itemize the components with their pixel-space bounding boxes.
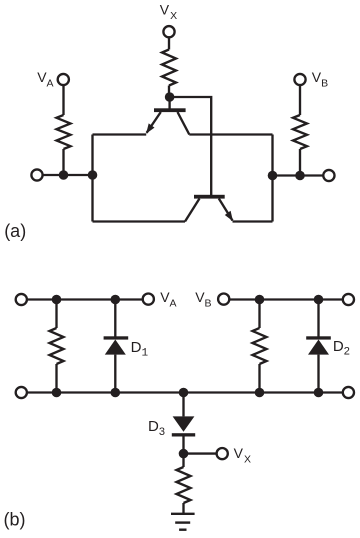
node (179, 449, 189, 459)
transistor Q2 (185, 195, 233, 222)
wire (182, 503, 184, 514)
wire (170, 97, 212, 195)
node (52, 295, 62, 305)
resistor RA (57, 115, 71, 149)
svg-text:VB: VB (312, 69, 328, 90)
wire (62, 149, 64, 175)
wire (168, 86, 170, 98)
wire (273, 174, 324, 176)
svg-text:VA: VA (160, 289, 176, 310)
diode D2 (306, 300, 331, 393)
svg-text:VA: VA (37, 69, 53, 90)
svg-text:VX: VX (234, 445, 251, 466)
node (111, 295, 121, 305)
diode D3 (172, 393, 195, 454)
wire (258, 300, 260, 329)
svg-text:(a): (a) (4, 221, 26, 241)
terminal V_B (294, 74, 305, 85)
resistor R1 (50, 328, 64, 364)
terminal V_B (218, 294, 229, 305)
terminal V_X (163, 26, 174, 37)
terminal top-right (343, 294, 354, 305)
diode D1 (104, 300, 129, 393)
terminal top-left (16, 294, 27, 305)
node (268, 171, 278, 181)
resistor R2 (253, 328, 267, 364)
wire (55, 364, 57, 393)
node (59, 170, 69, 180)
wire (93, 133, 147, 135)
node (179, 388, 189, 398)
wire (299, 149, 301, 176)
wire (43, 174, 93, 176)
wire (bottom rail) (27, 391, 343, 393)
node (111, 388, 121, 398)
terminal bottom-right (343, 387, 354, 398)
wire (189, 133, 272, 135)
terminal V_A (58, 74, 69, 85)
wire (93, 220, 186, 222)
node (88, 170, 98, 180)
node (314, 388, 324, 398)
svg-text:VB: VB (195, 289, 211, 310)
wire (184, 452, 217, 454)
wire (182, 454, 184, 467)
terminal V_A (143, 294, 154, 305)
wire (91, 135, 93, 222)
terminal right (323, 170, 334, 181)
ground (171, 514, 195, 530)
wire (62, 85, 64, 115)
svg-text:VX: VX (160, 2, 177, 23)
wire (168, 97, 170, 109)
terminal bottom-left (16, 387, 27, 398)
wire (258, 364, 260, 393)
terminal left (31, 169, 42, 180)
node (255, 295, 265, 305)
resistor RB (293, 115, 307, 149)
node (52, 388, 62, 398)
svg-text:(b): (b) (4, 509, 26, 529)
svg-text:D2: D2 (333, 338, 350, 358)
svg-text:D1: D1 (131, 339, 149, 360)
node (314, 295, 324, 305)
wire (168, 37, 170, 49)
wire (top-left rail) (27, 298, 143, 300)
wire (55, 300, 57, 329)
node (255, 388, 265, 398)
resistor R3 (177, 467, 191, 503)
wire (271, 135, 273, 222)
transistor Q1 (146, 108, 189, 134)
svg-text:D3: D3 (148, 418, 165, 438)
wire (299, 85, 301, 115)
terminal V_X (217, 448, 228, 459)
node (junction dot) (165, 92, 175, 102)
resistor RX (162, 50, 176, 86)
wire (233, 220, 273, 222)
node (295, 171, 305, 181)
wire (top-right rail) (229, 298, 343, 300)
